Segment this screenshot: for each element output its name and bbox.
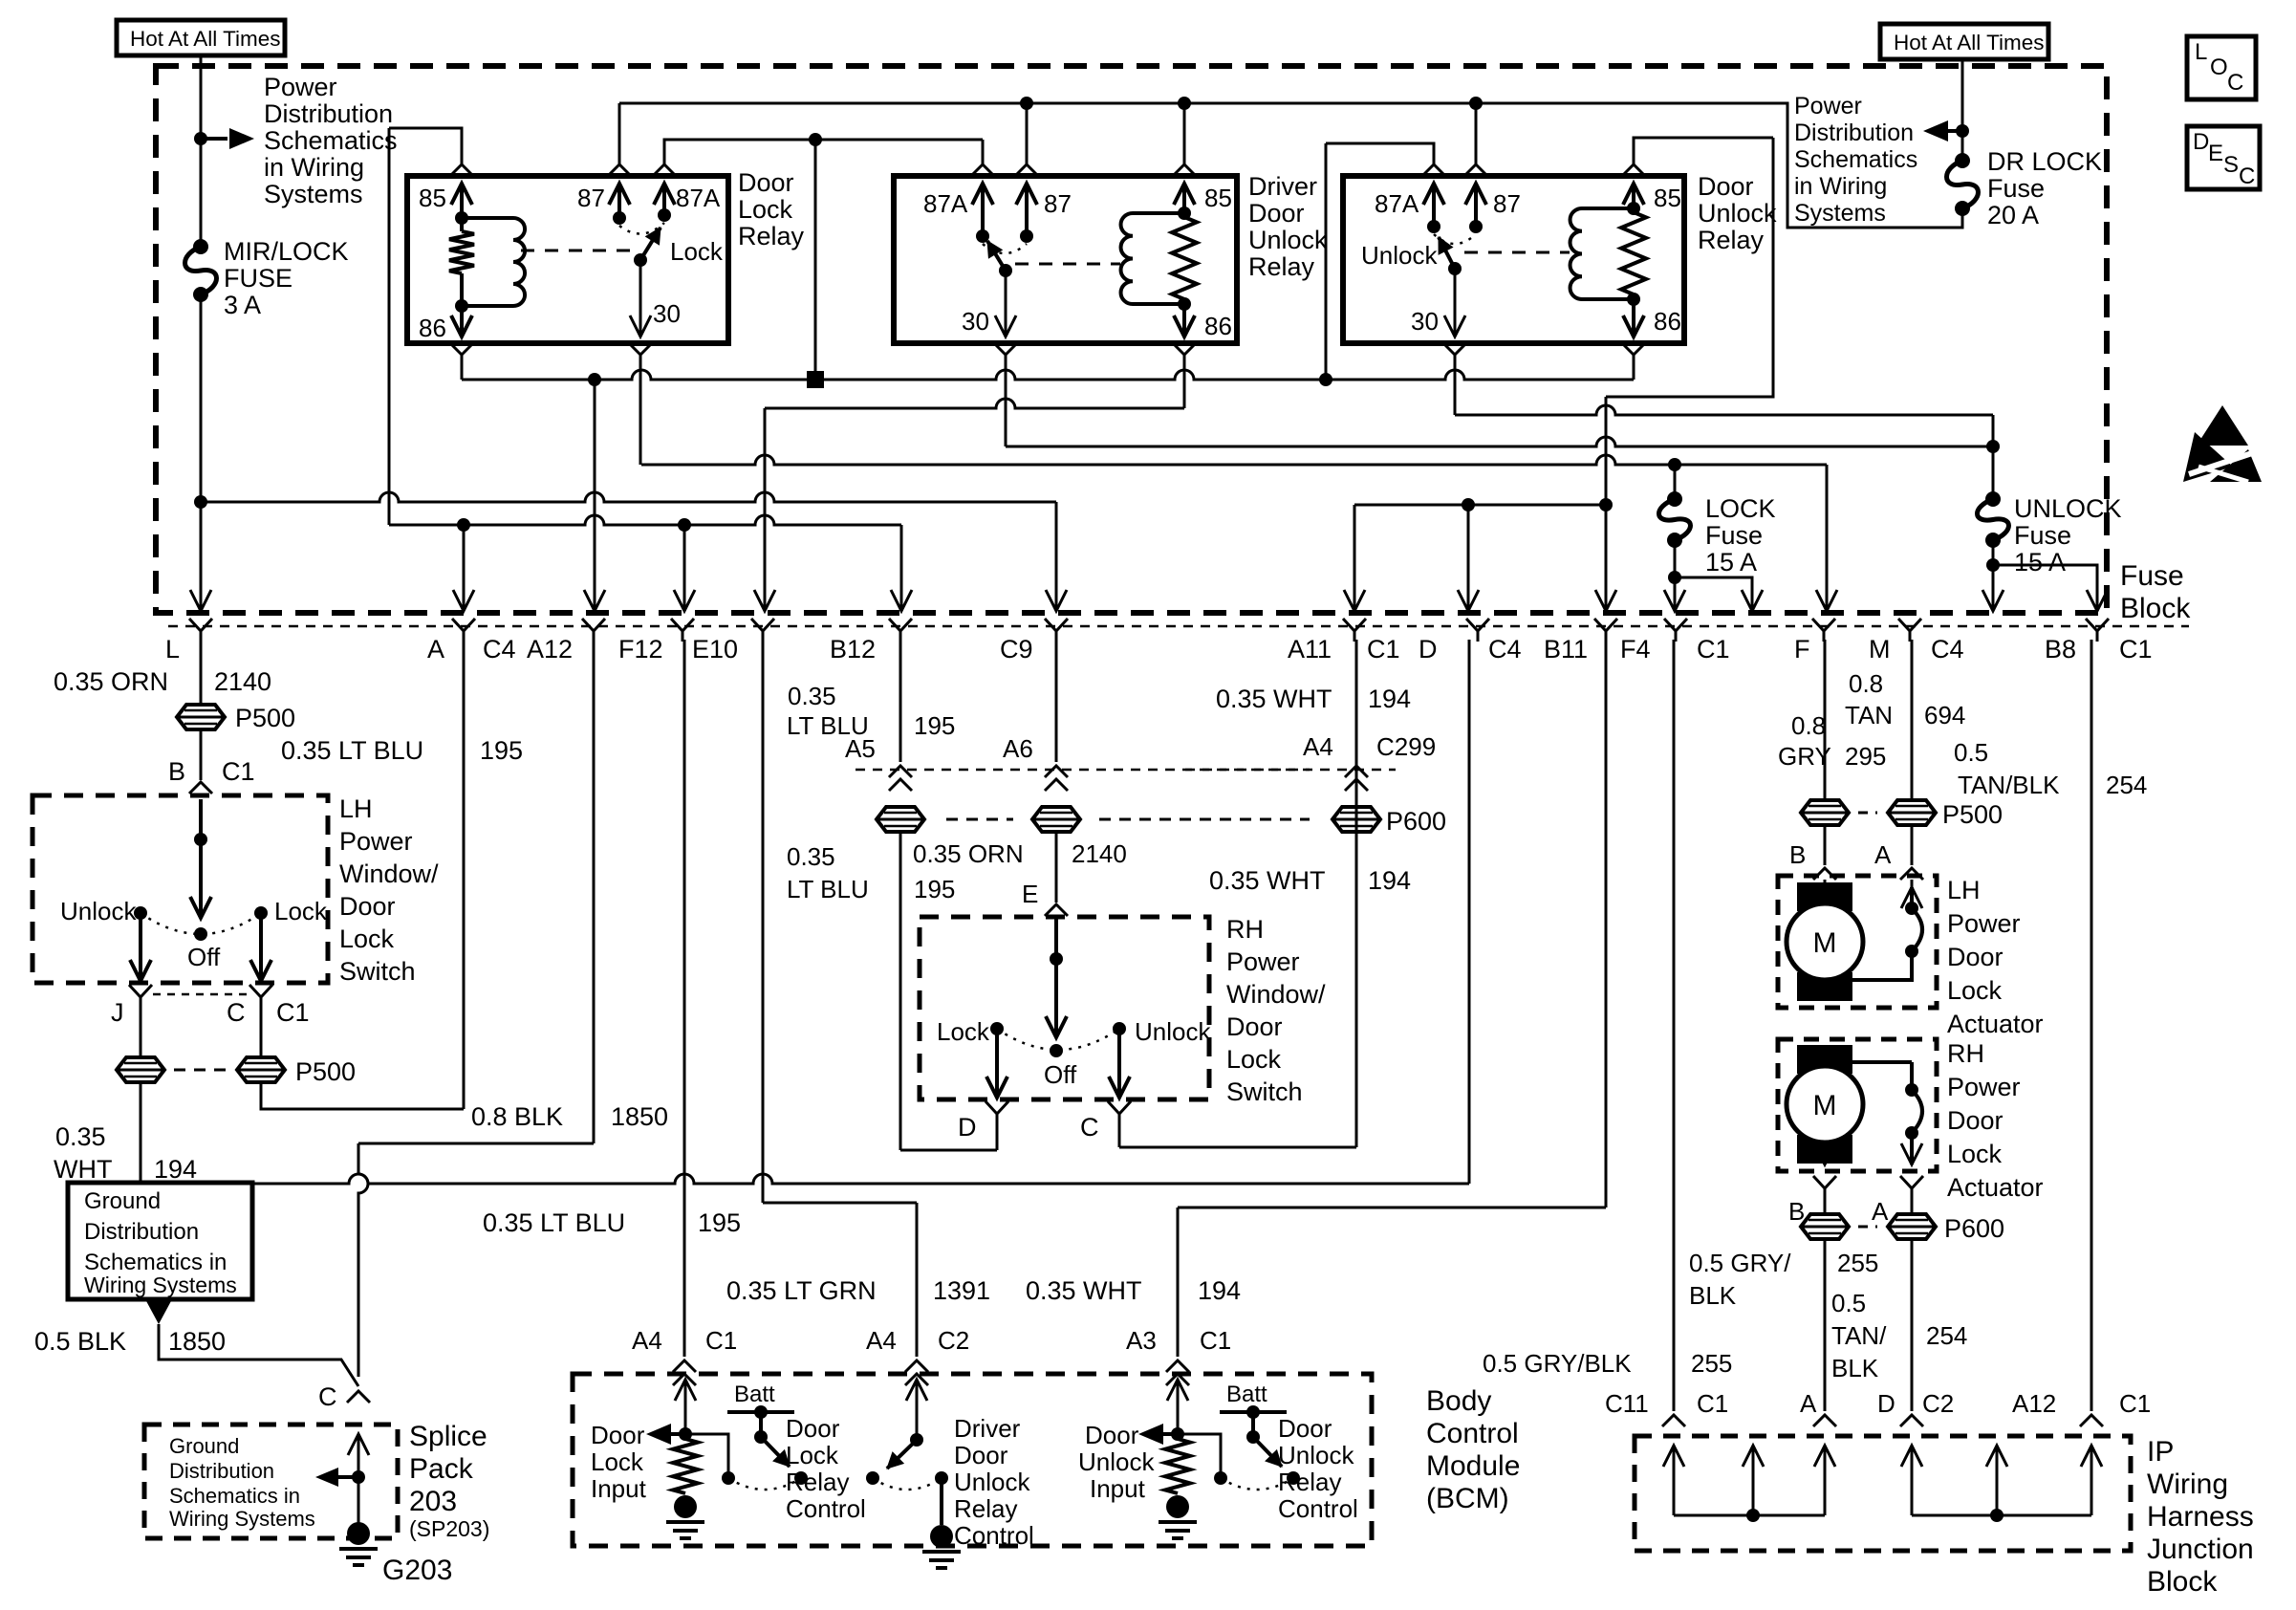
svg-text:255: 255 — [1691, 1349, 1732, 1378]
svg-text:S: S — [2223, 152, 2239, 178]
svg-text:86: 86 — [1204, 312, 1232, 340]
svg-text:Systems: Systems — [1794, 200, 1886, 227]
svg-text:Driver: Driver — [954, 1414, 1021, 1443]
svg-text:Door: Door — [591, 1421, 645, 1449]
svg-text:85: 85 — [1204, 184, 1232, 212]
wire: relay K3 30 drop to unlock fuse bus — [1443, 343, 1466, 355]
svg-text:B: B — [168, 757, 185, 786]
wire: D drop — [1467, 505, 1470, 609]
svg-text:Unlock: Unlock — [60, 897, 137, 925]
wire: lt blue riser to connector A — [463, 640, 466, 1109]
relay K1 switch Lock — [619, 223, 664, 234]
LH switch off arc — [141, 913, 261, 934]
dashed link K2 — [1015, 263, 1120, 266]
svg-text:87A: 87A — [676, 184, 721, 212]
svg-text:C299: C299 — [1376, 732, 1436, 761]
svg-text:Relay: Relay — [786, 1468, 849, 1496]
svg-text:IP: IP — [2147, 1436, 2174, 1468]
svg-text:Lock: Lock — [738, 195, 793, 224]
svg-text:C4: C4 — [1488, 635, 1522, 664]
svg-text:Switch: Switch — [1226, 1077, 1303, 1106]
svg-text:D: D — [1877, 1389, 1895, 1418]
svg-text:DR LOCK: DR LOCK — [1987, 147, 2102, 176]
svg-text:Batt: Batt — [1226, 1382, 1267, 1407]
svg-text:A5: A5 — [845, 734, 876, 763]
svg-text:C1: C1 — [222, 757, 255, 786]
LH actuator contact — [1901, 887, 1922, 908]
svg-text:Block: Block — [2147, 1566, 2218, 1598]
IP block left bus — [1674, 1514, 1825, 1517]
connector P600 right pair — [1824, 1199, 1827, 1216]
connector row into IP junction block — [1662, 1415, 1685, 1426]
svg-text:B11: B11 — [1544, 635, 1588, 664]
svg-text:C1: C1 — [2119, 635, 2153, 664]
unlock feed bus E10-relay2 86 — [765, 399, 1184, 408]
svg-text:Off: Off — [187, 943, 221, 971]
svg-text:195: 195 — [480, 736, 523, 765]
svg-text:Junction: Junction — [2147, 1534, 2254, 1565]
fuse MIR/LOCK 3A — [193, 239, 208, 254]
svg-text:Schematics: Schematics — [264, 126, 398, 155]
connector P500 (orange feed) — [177, 705, 225, 729]
svg-text:Power: Power — [1947, 909, 2021, 938]
wire: relay K1 87 riser — [608, 164, 631, 176]
svg-text:Splice: Splice — [409, 1421, 487, 1452]
svg-text:C11: C11 — [1605, 1389, 1649, 1418]
wire: E10 to BCM A4 C2 — [762, 640, 765, 1203]
svg-text:C1: C1 — [1200, 1326, 1231, 1355]
svg-text:M: M — [1813, 1090, 1837, 1121]
svg-text:Wiring Systems: Wiring Systems — [84, 1273, 237, 1297]
svg-text:Unlock: Unlock — [1361, 241, 1438, 270]
svg-text:0.35 ORN: 0.35 ORN — [913, 839, 1024, 868]
svg-text:Relay: Relay — [1698, 226, 1765, 254]
svg-text:203: 203 — [409, 1486, 457, 1517]
svg-text:Door: Door — [339, 892, 396, 921]
svg-text:Lock: Lock — [786, 1441, 839, 1469]
svg-text:87: 87 — [577, 184, 605, 212]
svg-text:194: 194 — [1368, 685, 1411, 713]
BCM cell 1: door lock input — [675, 1380, 696, 1401]
svg-text:Door: Door — [1947, 943, 2004, 971]
wht 194 bus J to D — [140, 1080, 142, 1184]
LH power window/door lock switch box — [32, 795, 328, 983]
wire: relay K3 86 drop to ground bus — [1622, 343, 1645, 355]
wire: C9 to A6 — [1055, 640, 1058, 762]
lt blue bus relay K1 85 to B12 — [389, 515, 901, 525]
wire: right Hot At All Times feed — [1961, 59, 1964, 161]
wire: MIR/LOCK fuse to connector L — [200, 294, 203, 609]
svg-text:194: 194 — [154, 1155, 197, 1184]
svg-text:0.5 BLK: 0.5 BLK — [34, 1327, 126, 1356]
wire: LOCK fuse output — [1674, 540, 1677, 609]
wire: relay K3 85 riser to DR LOCK feed — [1622, 164, 1645, 176]
svg-text:C9: C9 — [1000, 635, 1033, 664]
relay K1 coil — [462, 216, 513, 220]
svg-text:RH: RH — [1226, 915, 1264, 944]
svg-text:L: L — [2195, 39, 2207, 65]
wire: LH lock contact to C — [259, 913, 263, 981]
svg-text:Lock: Lock — [1947, 1140, 2003, 1168]
svg-text:C4: C4 — [1931, 635, 1964, 664]
svg-text:P500: P500 — [295, 1057, 356, 1086]
svg-text:BLK: BLK — [1831, 1354, 1879, 1382]
label box: Hot At All Times (right) — [1880, 24, 2048, 59]
wire: P500 to LH switch B — [200, 728, 203, 780]
svg-text:30: 30 — [653, 299, 681, 328]
svg-text:(BCM): (BCM) — [1426, 1483, 1509, 1514]
relay K1 coil resistor — [449, 231, 474, 273]
svg-text:Body: Body — [1426, 1385, 1491, 1417]
svg-text:C: C — [318, 1382, 337, 1411]
svg-text:Door: Door — [738, 168, 794, 197]
svg-text:C: C — [1080, 1113, 1099, 1142]
ground note arrow — [145, 1299, 172, 1324]
svg-text:254: 254 — [1926, 1321, 1967, 1350]
wire: B8 to IP block — [2090, 640, 2093, 1411]
connector P500 right pair — [1801, 800, 1849, 825]
svg-text:0.35 WHT: 0.35 WHT — [1209, 866, 1326, 895]
RH actuator contact — [1847, 1060, 1912, 1064]
svg-text:Door: Door — [1248, 199, 1305, 228]
unlock bus relay K3 30 to UNLOCK fuse — [1455, 405, 1993, 415]
svg-text:in Wiring: in Wiring — [1794, 173, 1887, 200]
fuse DR LOCK 20A — [1955, 153, 1970, 168]
legend box DESC — [2187, 126, 2260, 189]
svg-text:C1: C1 — [1367, 635, 1400, 664]
svg-text:15 A: 15 A — [2014, 548, 2066, 577]
svg-text:J: J — [111, 998, 124, 1027]
top bus junction dots — [1020, 97, 1033, 110]
svg-text:Distribution: Distribution — [1794, 120, 1914, 146]
svg-text:Door: Door — [1226, 1012, 1283, 1041]
relay K2 coil — [1133, 211, 1184, 215]
legend box LOC — [2187, 36, 2256, 99]
svg-text:Lock: Lock — [937, 1017, 990, 1046]
junction to power distribution note — [194, 132, 207, 145]
fuse LOCK 15A — [1674, 465, 1677, 499]
wire: 85 bus down left column — [388, 128, 391, 525]
svg-text:Fuse: Fuse — [2120, 560, 2184, 592]
wire: relay K1 85 riser to bus — [450, 164, 473, 176]
wire: DR LOCK feed down to B11 link — [1606, 138, 1773, 397]
svg-text:E: E — [1022, 880, 1038, 908]
svg-text:Control: Control — [1426, 1418, 1519, 1449]
connector pins row — [189, 619, 212, 642]
MIR/LOCK bus to C9 — [201, 492, 1056, 502]
svg-text:Unlock: Unlock — [1278, 1441, 1354, 1469]
svg-text:295: 295 — [1845, 742, 1886, 771]
svg-text:LH: LH — [1947, 876, 1981, 904]
svg-text:195: 195 — [698, 1208, 741, 1237]
wire: E10 drop — [764, 408, 767, 609]
svg-text:86: 86 — [1654, 307, 1681, 336]
svg-text:Door: Door — [1698, 172, 1754, 201]
svg-text:3 A: 3 A — [224, 291, 261, 319]
svg-text:0.35: 0.35 — [787, 842, 835, 871]
IP wiring harness junction block box — [1635, 1436, 2131, 1551]
wire: A12 ground drop — [594, 380, 596, 609]
relay K3 Door Unlock Relay box — [1343, 176, 1684, 343]
svg-text:A11: A11 — [1288, 635, 1332, 664]
svg-text:O: O — [2210, 54, 2228, 80]
svg-text:Control: Control — [1278, 1494, 1358, 1523]
ESD warning symbol — [2197, 405, 2248, 446]
svg-text:1850: 1850 — [168, 1327, 226, 1356]
svg-text:LH: LH — [339, 794, 373, 823]
svg-text:0.35: 0.35 — [55, 1122, 106, 1151]
wire: F to LH actuator B — [1824, 640, 1827, 802]
svg-text:Module: Module — [1426, 1450, 1520, 1482]
svg-text:D: D — [2193, 129, 2209, 155]
svg-text:Schematics in: Schematics in — [84, 1250, 227, 1275]
svg-text:TAN/BLK: TAN/BLK — [1958, 771, 2060, 799]
relay K2 switch — [983, 244, 1027, 253]
svg-text:Actuator: Actuator — [1947, 1010, 2044, 1038]
connector P500 pair — [117, 1057, 164, 1082]
IP block right bus — [1912, 1514, 2091, 1517]
svg-text:Unlock: Unlock — [1135, 1017, 1211, 1046]
wire: F4 to IP block — [1673, 640, 1676, 1411]
wire: relay K2 87 riser — [1015, 164, 1038, 176]
svg-text:Relay: Relay — [954, 1494, 1017, 1523]
dashed link coil to switch K1 — [521, 250, 631, 252]
wire: relay K2 87A riser — [971, 164, 994, 176]
svg-text:C2: C2 — [1922, 1389, 1954, 1418]
svg-text:194: 194 — [1368, 866, 1411, 895]
svg-text:(SP203): (SP203) — [409, 1516, 489, 1541]
dashed link K3 — [1464, 251, 1570, 254]
svg-text:LOCK: LOCK — [1705, 494, 1776, 523]
svg-text:Batt: Batt — [734, 1382, 775, 1407]
svg-text:0.8: 0.8 — [1791, 711, 1826, 740]
svg-text:Input: Input — [1090, 1474, 1146, 1503]
svg-text:Systems: Systems — [264, 180, 363, 208]
svg-text:15 A: 15 A — [1705, 548, 1757, 577]
svg-text:Door: Door — [1278, 1414, 1332, 1443]
svg-text:A: A — [1872, 1197, 1889, 1226]
wire: relay K2 30 drop to unlock bus — [994, 343, 1017, 355]
svg-text:0.35: 0.35 — [788, 682, 836, 710]
wire: relay K2 85 riser — [1173, 164, 1196, 176]
svg-text:Relay: Relay — [738, 222, 805, 250]
svg-text:E: E — [2208, 141, 2223, 166]
wire: relay K2 86 drop to E bus — [1173, 343, 1196, 355]
svg-text:WHT: WHT — [54, 1155, 112, 1184]
relay K2 resistor — [1172, 217, 1197, 299]
svg-text:MIR/LOCK: MIR/LOCK — [224, 237, 349, 266]
svg-text:0.35 ORN: 0.35 ORN — [54, 667, 168, 696]
svg-text:Unlock: Unlock — [1248, 226, 1328, 254]
lock bus relay K1 30 to LOCK fuse and F pin — [641, 455, 1827, 465]
svg-text:30: 30 — [1411, 307, 1439, 336]
svg-text:Distribution: Distribution — [169, 1459, 274, 1483]
connector A5 row — [889, 766, 912, 777]
wire: F12 drop — [683, 525, 686, 609]
svg-text:C1: C1 — [276, 998, 310, 1027]
svg-text:0.8 BLK: 0.8 BLK — [471, 1102, 563, 1131]
svg-text:Control: Control — [786, 1494, 866, 1523]
svg-text:Hot At All Times: Hot At All Times — [130, 27, 281, 51]
LH power door lock actuator box — [1778, 876, 1937, 1008]
svg-text:85: 85 — [1654, 184, 1681, 212]
svg-text:Wiring: Wiring — [2147, 1469, 2228, 1500]
svg-text:TAN/: TAN/ — [1831, 1321, 1887, 1350]
svg-text:A: A — [1874, 840, 1892, 869]
svg-text:C: C — [2227, 70, 2243, 96]
svg-text:Switch: Switch — [339, 957, 416, 986]
fuse block outline — [156, 66, 2107, 613]
svg-text:D: D — [958, 1113, 977, 1142]
ground bus 1850 (relay coils) — [462, 370, 1634, 380]
svg-text:FUSE: FUSE — [224, 264, 292, 293]
svg-text:255: 255 — [1837, 1249, 1878, 1277]
svg-text:A3: A3 — [1126, 1326, 1157, 1355]
splice pack feed arrow — [348, 1434, 369, 1455]
svg-text:Lock: Lock — [591, 1447, 644, 1476]
svg-text:in Wiring: in Wiring — [264, 153, 364, 182]
wire: DR LOCK fuse output to top bus — [619, 103, 1962, 228]
svg-text:87: 87 — [1044, 189, 1072, 218]
note box: Ground Distribution Schematics — [68, 1183, 252, 1299]
svg-text:C2: C2 — [938, 1326, 969, 1355]
RH switch feed — [1054, 917, 1058, 1037]
svg-text:Distribution: Distribution — [84, 1219, 199, 1245]
svg-text:Pack: Pack — [409, 1453, 474, 1485]
relay K3 switch Unlock — [1434, 234, 1476, 244]
wire: 87A bus to relay K2 87A — [815, 139, 983, 141]
svg-text:E10: E10 — [692, 635, 738, 664]
svg-text:0.5: 0.5 — [1831, 1289, 1866, 1317]
svg-text:0.5 GRY/BLK: 0.5 GRY/BLK — [1483, 1349, 1632, 1378]
RH power door lock actuator box — [1778, 1039, 1937, 1171]
svg-text:Ground: Ground — [84, 1188, 161, 1214]
svg-text:Window/: Window/ — [1226, 980, 1326, 1009]
svg-text:Door: Door — [1085, 1421, 1139, 1449]
svg-text:Input: Input — [591, 1474, 647, 1503]
svg-text:Distribution: Distribution — [264, 99, 393, 128]
svg-text:A12: A12 — [2012, 1389, 2056, 1418]
svg-text:B12: B12 — [830, 635, 876, 664]
svg-text:194: 194 — [1198, 1276, 1241, 1305]
svg-text:A4: A4 — [866, 1326, 897, 1355]
svg-text:C4: C4 — [483, 635, 516, 664]
wire: relay K1 87A riser to 87A bus — [653, 164, 676, 176]
wire: F pin drop — [1826, 465, 1829, 609]
wire: B11 drop — [1605, 397, 1608, 609]
wire: RH actuator A to IP block — [1911, 1237, 1914, 1411]
relay K1 Door Lock Relay box — [407, 176, 728, 343]
svg-text:Schematics in: Schematics in — [169, 1484, 300, 1508]
wire: M to LH actuator A — [1911, 640, 1914, 802]
svg-text:Lock: Lock — [670, 237, 724, 266]
svg-text:2140: 2140 — [214, 667, 271, 696]
RH actuator motor — [1797, 1045, 1852, 1074]
wire: LH unlock contact to J — [139, 913, 142, 981]
svg-text:85: 85 — [419, 184, 446, 212]
wire: UNLOCK fuse output — [1992, 540, 1995, 609]
svg-text:A: A — [427, 635, 444, 664]
svg-text:Off: Off — [1044, 1060, 1077, 1089]
connector B A below RH actuator — [1813, 1176, 1836, 1199]
svg-text:Fuse: Fuse — [1705, 521, 1763, 550]
wire: RH actuator B to IP block — [1824, 1237, 1827, 1411]
svg-text:254: 254 — [2106, 771, 2147, 799]
wire: A12 to splice pack — [593, 640, 596, 1143]
wire: relay K1 30 drop to lock bus — [629, 343, 652, 355]
svg-text:G203: G203 — [382, 1555, 452, 1586]
body control module box — [573, 1374, 1372, 1546]
svg-text:Door: Door — [786, 1414, 840, 1443]
wire: relay K1 86 drop to ground bus — [450, 343, 473, 355]
svg-text:Actuator: Actuator — [1947, 1173, 2044, 1202]
label box: Hot At All Times (left) — [117, 20, 285, 55]
svg-text:Lock: Lock — [1947, 976, 2003, 1005]
wire: F12 to BCM A4 C1 — [683, 640, 686, 1357]
svg-text:M: M — [1813, 927, 1837, 959]
wire: L to P500 — [200, 640, 203, 707]
svg-text:Ground: Ground — [169, 1434, 239, 1458]
wire: B12 drop — [900, 525, 903, 609]
svg-text:Control: Control — [954, 1521, 1034, 1550]
svg-text:Power: Power — [264, 73, 337, 101]
svg-text:30: 30 — [962, 307, 989, 336]
ground G203 — [357, 1477, 360, 1526]
wire: D drop to 194 bus — [1468, 640, 1471, 1184]
svg-text:Door: Door — [954, 1441, 1008, 1469]
svg-text:Driver: Driver — [1248, 172, 1317, 201]
svg-text:694: 694 — [1924, 701, 1965, 729]
svg-text:C: C — [227, 998, 246, 1027]
svg-text:Window/: Window/ — [339, 859, 439, 888]
svg-text:C1: C1 — [2119, 1389, 2151, 1418]
svg-text:B8: B8 — [2045, 635, 2076, 664]
svg-text:UNLOCK: UNLOCK — [2014, 494, 2122, 523]
svg-text:Lock: Lock — [339, 925, 395, 953]
svg-text:C: C — [2239, 163, 2255, 189]
svg-text:P500: P500 — [235, 704, 295, 732]
svg-text:0.5: 0.5 — [1954, 738, 1988, 767]
svg-text:86: 86 — [419, 314, 446, 342]
svg-text:87A: 87A — [923, 189, 968, 218]
LH switch common feed — [199, 799, 203, 918]
wire: C pin to wht riser — [1118, 1124, 1121, 1147]
svg-text:0.35 LT GRN: 0.35 LT GRN — [726, 1276, 877, 1305]
svg-text:0.5 GRY/: 0.5 GRY/ — [1689, 1249, 1791, 1277]
connector row D C below RH switch — [986, 1101, 1008, 1124]
RH switch off arc — [997, 1029, 1119, 1050]
svg-text:87A: 87A — [1375, 189, 1419, 218]
svg-text:Door: Door — [1947, 1106, 2004, 1135]
BCM cell 3: door unlock input — [1167, 1380, 1188, 1401]
wire: J to P500 — [140, 1008, 142, 1059]
svg-text:RH: RH — [1947, 1039, 1984, 1068]
svg-text:20 A: 20 A — [1987, 201, 2039, 229]
svg-text:Unlock: Unlock — [1698, 199, 1777, 228]
wire: 87A bus drop — [814, 140, 817, 380]
svg-text:C1: C1 — [1697, 635, 1730, 664]
svg-text:Unlock: Unlock — [954, 1468, 1030, 1496]
svg-text:A6: A6 — [1003, 734, 1033, 763]
wire: B12 to A5 — [899, 640, 902, 762]
svg-text:BLK: BLK — [1689, 1281, 1737, 1310]
splice pack box — [144, 1425, 398, 1538]
svg-text:Harness: Harness — [2147, 1501, 2254, 1533]
svg-text:Block: Block — [2120, 593, 2191, 624]
wire: C9 drop — [1055, 502, 1058, 609]
wire: left Hot At All Times feed — [200, 55, 203, 247]
svg-text:GRY: GRY — [1778, 742, 1831, 771]
